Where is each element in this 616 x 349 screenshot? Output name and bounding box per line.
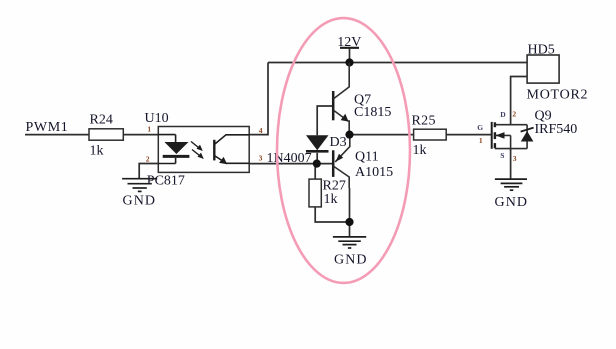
resistor R24 [89,112,123,158]
ground node junction [345,218,353,226]
diode D3 1N4007 [267,135,347,166]
wire node to Q11 base [317,163,335,165]
svg-text:Q11: Q11 [355,150,379,165]
gate bar [491,122,493,149]
wire D3 cathode to node [316,153,318,164]
svg-text:G: G [477,123,483,132]
LED inside U10 [158,135,189,164]
wire R24 to U10 [123,134,158,136]
svg-text:2: 2 [146,154,150,163]
ground GND right [495,179,527,190]
transistor Q9 IRF540 [477,109,577,163]
svg-text:R25: R25 [412,113,436,128]
source tap [495,148,527,150]
output node junction [345,131,353,139]
svg-text:D: D [500,110,506,119]
wire 12V power stub [349,48,351,63]
svg-text:1: 1 [479,136,483,145]
svg-text:PC817: PC817 [147,173,185,188]
ground GND middle [333,237,366,248]
highlight ellipse [277,18,410,283]
junction on 12V rail [345,58,353,66]
wire Q11 collector vertical to ground node [349,188,351,222]
svg-text:GND: GND [334,253,368,268]
power 12V [337,35,361,67]
svg-text:1k: 1k [413,143,427,158]
svg-text:3: 3 [513,154,517,163]
svg-text:4: 4 [259,126,263,135]
wire U10 pin3 to node [249,163,317,165]
svg-text:GND: GND [495,195,529,210]
wire PWM1 stub [25,134,89,136]
svg-text:1: 1 [147,125,151,134]
wire Q9 drain to HD5 stub [511,77,527,125]
svg-text:IRF540: IRF540 [535,122,578,137]
ground GND left [122,179,157,192]
svg-text:S: S [500,151,504,160]
svg-text:3: 3 [259,154,263,163]
svg-text:2: 2 [512,110,516,119]
transistor Q7 C1815 [333,63,391,135]
transistor Q11 A1015 [333,135,393,188]
wire Q9 source to GND [510,149,512,180]
svg-text:1k: 1k [90,143,104,158]
wire R25 to Q9 gate [446,134,492,136]
svg-text:MOTOR2: MOTOR2 [527,87,589,102]
svg-text:GND: GND [123,194,157,209]
resistor R27 [309,179,346,207]
svg-text:A1015: A1015 [355,165,393,180]
wire node to R27 top [314,164,316,180]
wire 12V top rail [268,62,527,64]
drain tap [495,124,527,126]
wire U10 pin2 to ground riser [139,164,158,179]
body diode of Q9 [526,125,528,149]
resistor R25 [412,113,447,158]
wire output node to R25 [350,134,414,136]
svg-text:R24: R24 [90,112,113,127]
wire ground node to GND symbol [349,222,351,237]
connector HD5 MOTOR2 [527,42,589,102]
svg-text:1N4007: 1N4007 [267,151,312,166]
svg-text:1k: 1k [324,192,338,207]
wire U10 pin4 riser to 12V rail [249,63,268,135]
channel segments [494,122,496,148]
optocoupler U10 PC817 [145,111,263,188]
light arrows inside U10 [191,142,204,160]
phototransistor inside U10 [214,135,249,164]
wire Q7 base from D3 [317,106,333,135]
svg-text:HD5: HD5 [528,42,555,57]
svg-text:C1815: C1815 [354,105,391,120]
wire R27 bottom to ground node [315,207,349,222]
node junction pin3/D3/R27/Q11 base [313,160,321,168]
body arrow [495,134,511,136]
svg-text:PWM1: PWM1 [26,120,69,135]
svg-text:D3: D3 [330,135,347,150]
